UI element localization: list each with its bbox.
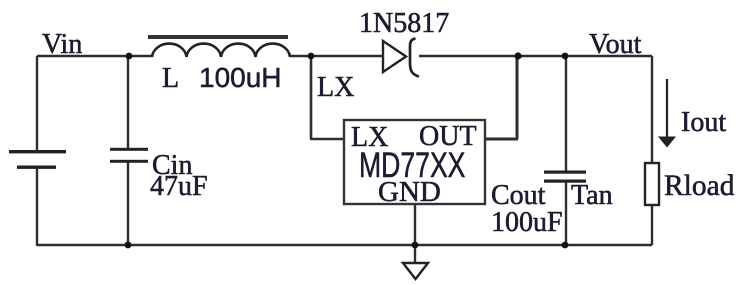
wire OUT branch vertical: [516, 56, 519, 139]
svg-text:100uH: 100uH: [199, 62, 282, 93]
wire Cout branch lower: [565, 182, 567, 245]
node junction dot bottom at Cout: [562, 242, 569, 249]
inductor L winding: [152, 44, 290, 57]
svg-text:Vout: Vout: [589, 29, 642, 60]
wire GND branch (IC to ground): [414, 205, 416, 263]
svg-text:Tan: Tan: [571, 180, 613, 211]
node junction dot top at Cout: [562, 53, 569, 60]
wire Cout branch upper: [565, 56, 567, 172]
wire LX branch vertical: [310, 56, 313, 139]
capacitor Cin bottom plate: [110, 160, 148, 163]
wire LX branch horizontal to IC pin: [310, 138, 344, 141]
inductor L core bar: [148, 35, 288, 39]
wire right branch lower (Rload to bottom rail): [651, 205, 653, 245]
node junction dot diode cathode: [514, 52, 521, 59]
wire left branch upper (Vin to battery): [36, 56, 38, 151]
svg-text:Vin: Vin: [42, 29, 82, 60]
svg-text:100uF: 100uF: [491, 207, 563, 238]
diode D1 1N5817 triangle: [383, 41, 406, 72]
svg-text:Iout: Iout: [681, 107, 726, 138]
node junction dot bottom at GND: [412, 242, 419, 249]
wire top rail left segment: [37, 55, 152, 57]
capacitor Cout top plate: [544, 171, 586, 174]
wire left branch lower (battery to bottom rail): [36, 167, 38, 246]
diode D1 schottky cathode bar: [410, 39, 419, 77]
wire top rail diode-to-right segment: [419, 55, 652, 57]
svg-text:LX: LX: [317, 72, 354, 103]
battery B1 bottom plate: [17, 166, 56, 169]
node junction dot top at Cin: [126, 53, 133, 60]
svg-text:1N5817: 1N5817: [359, 8, 449, 39]
wire Cin branch lower: [127, 162, 129, 245]
svg-text:47uF: 47uF: [150, 171, 208, 202]
resistor Rload body: [645, 163, 659, 205]
wire Cin branch upper: [127, 56, 129, 149]
capacitor Cin top plate: [110, 148, 148, 151]
current arrow Iout: [666, 79, 668, 138]
svg-text:Rload: Rload: [664, 170, 735, 202]
node junction dot top at LX: [308, 53, 315, 60]
svg-text:L: L: [162, 63, 179, 94]
svg-text:GND: GND: [378, 176, 441, 208]
wire OUT branch horizontal to IC pin: [485, 138, 518, 141]
capacitor Cout bottom plate: [544, 180, 586, 183]
wire top rail inductor-to-diode segment: [290, 55, 383, 57]
battery B1 top plate: [9, 150, 66, 153]
node junction dot bottom at Cin: [125, 242, 132, 249]
ground symbol: [403, 263, 428, 279]
IC U1 MD77XX box: [344, 120, 485, 204]
wire right branch upper (Vout to Rload): [651, 56, 653, 163]
wire bottom rail: [37, 244, 652, 246]
